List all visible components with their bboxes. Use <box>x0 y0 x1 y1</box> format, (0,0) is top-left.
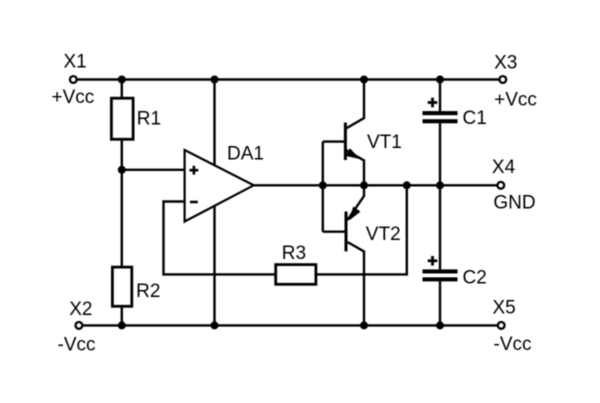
junction output rail / R3 riser <box>403 181 411 189</box>
junction bottom rail / VT2 collector <box>360 321 368 329</box>
wire R1 bottom to R2 top <box>121 139 123 267</box>
junction top rail / C1 <box>436 76 444 84</box>
wire VT1 base lead <box>323 140 346 142</box>
wire VT1 collector lead to top rail <box>346 80 364 129</box>
capacitor C1 <box>423 111 458 123</box>
wire R3 right riser to output rail <box>316 185 407 274</box>
svg-text:-Vcc: -Vcc <box>494 334 532 355</box>
C2 polarity + mark <box>428 256 438 266</box>
wire C2 bottom lead <box>439 281 441 325</box>
svg-text:X4: X4 <box>492 157 516 178</box>
capacitor C2 <box>423 269 458 281</box>
resistor R2 <box>112 267 131 306</box>
svg-text:VT2: VT2 <box>366 224 401 245</box>
wire base column VT1 base to VT2 base <box>322 142 324 232</box>
svg-text:VT1: VT1 <box>367 132 402 153</box>
junction bottom rail / R2 <box>118 321 126 329</box>
wire C1 top lead <box>439 80 441 112</box>
wire C2 top lead <box>439 185 441 269</box>
svg-text:X5: X5 <box>493 297 516 318</box>
wire top rail +Vcc (X1 to X3) <box>73 78 503 80</box>
junction bottom rail / op-amp supply <box>211 321 219 329</box>
wire C1 bottom lead <box>439 123 441 185</box>
junction top rail / op-amp supply <box>211 76 219 84</box>
wire bottom rail -Vcc (X2 to X5) <box>79 324 501 326</box>
terminal X1 <box>70 76 77 83</box>
wire op-amp negative supply pin to bottom rail <box>213 206 215 325</box>
junction output rail / emitters <box>360 181 368 189</box>
transistor VT2 (PNP) <box>346 207 360 251</box>
svg-text:R1: R1 <box>137 108 161 129</box>
svg-text:C1: C1 <box>463 108 487 129</box>
terminal X2 <box>76 322 83 329</box>
svg-text:DA1: DA1 <box>227 144 264 165</box>
C1 polarity + mark <box>428 98 438 108</box>
wire VT2 collector lead to bottom rail <box>347 242 364 325</box>
junction bottom rail / C2 <box>436 321 444 329</box>
wire top rail to R1 top <box>121 80 123 99</box>
op-amp DA1 <box>185 150 254 222</box>
svg-text:-Vcc: -Vcc <box>58 335 96 356</box>
junction top rail / VT1 collector <box>360 76 368 84</box>
svg-text:X3: X3 <box>494 52 517 73</box>
wire VT2 base lead <box>323 230 346 232</box>
resistor R3 <box>276 265 316 285</box>
terminal X4 <box>497 182 504 189</box>
resistor R1 <box>111 98 133 139</box>
wire VT1 emitter lead to output rail <box>346 150 364 185</box>
svg-text:R3: R3 <box>282 243 306 264</box>
junction output rail / bases <box>319 181 327 189</box>
svg-text:GND: GND <box>493 193 535 214</box>
svg-text:X1: X1 <box>64 52 87 73</box>
terminal X5 <box>498 322 505 329</box>
junction output rail / C1-C2 <box>436 181 444 189</box>
terminal X3 <box>499 76 506 83</box>
svg-text:+Vcc: +Vcc <box>494 90 537 111</box>
wire R2 bottom to bottom rail <box>121 306 123 325</box>
wire op-amp - input feedback loop to R3 left <box>164 202 276 275</box>
wire op-amp positive supply pin to top rail <box>213 80 215 167</box>
wire VT2 emitter lead from output rail <box>347 185 364 220</box>
svg-text:R2: R2 <box>136 281 160 302</box>
svg-text:C2: C2 <box>463 267 487 288</box>
junction top rail / R1 <box>118 76 126 84</box>
svg-text:X2: X2 <box>69 299 92 320</box>
transistor VT1 (NPN) <box>345 123 358 161</box>
wire divider node to op-amp + input <box>122 169 186 171</box>
junction R1-R2 divider node <box>118 166 126 174</box>
wire output rail GND (op-amp output to X4) <box>252 184 502 186</box>
svg-text:+Vcc: +Vcc <box>52 87 95 108</box>
